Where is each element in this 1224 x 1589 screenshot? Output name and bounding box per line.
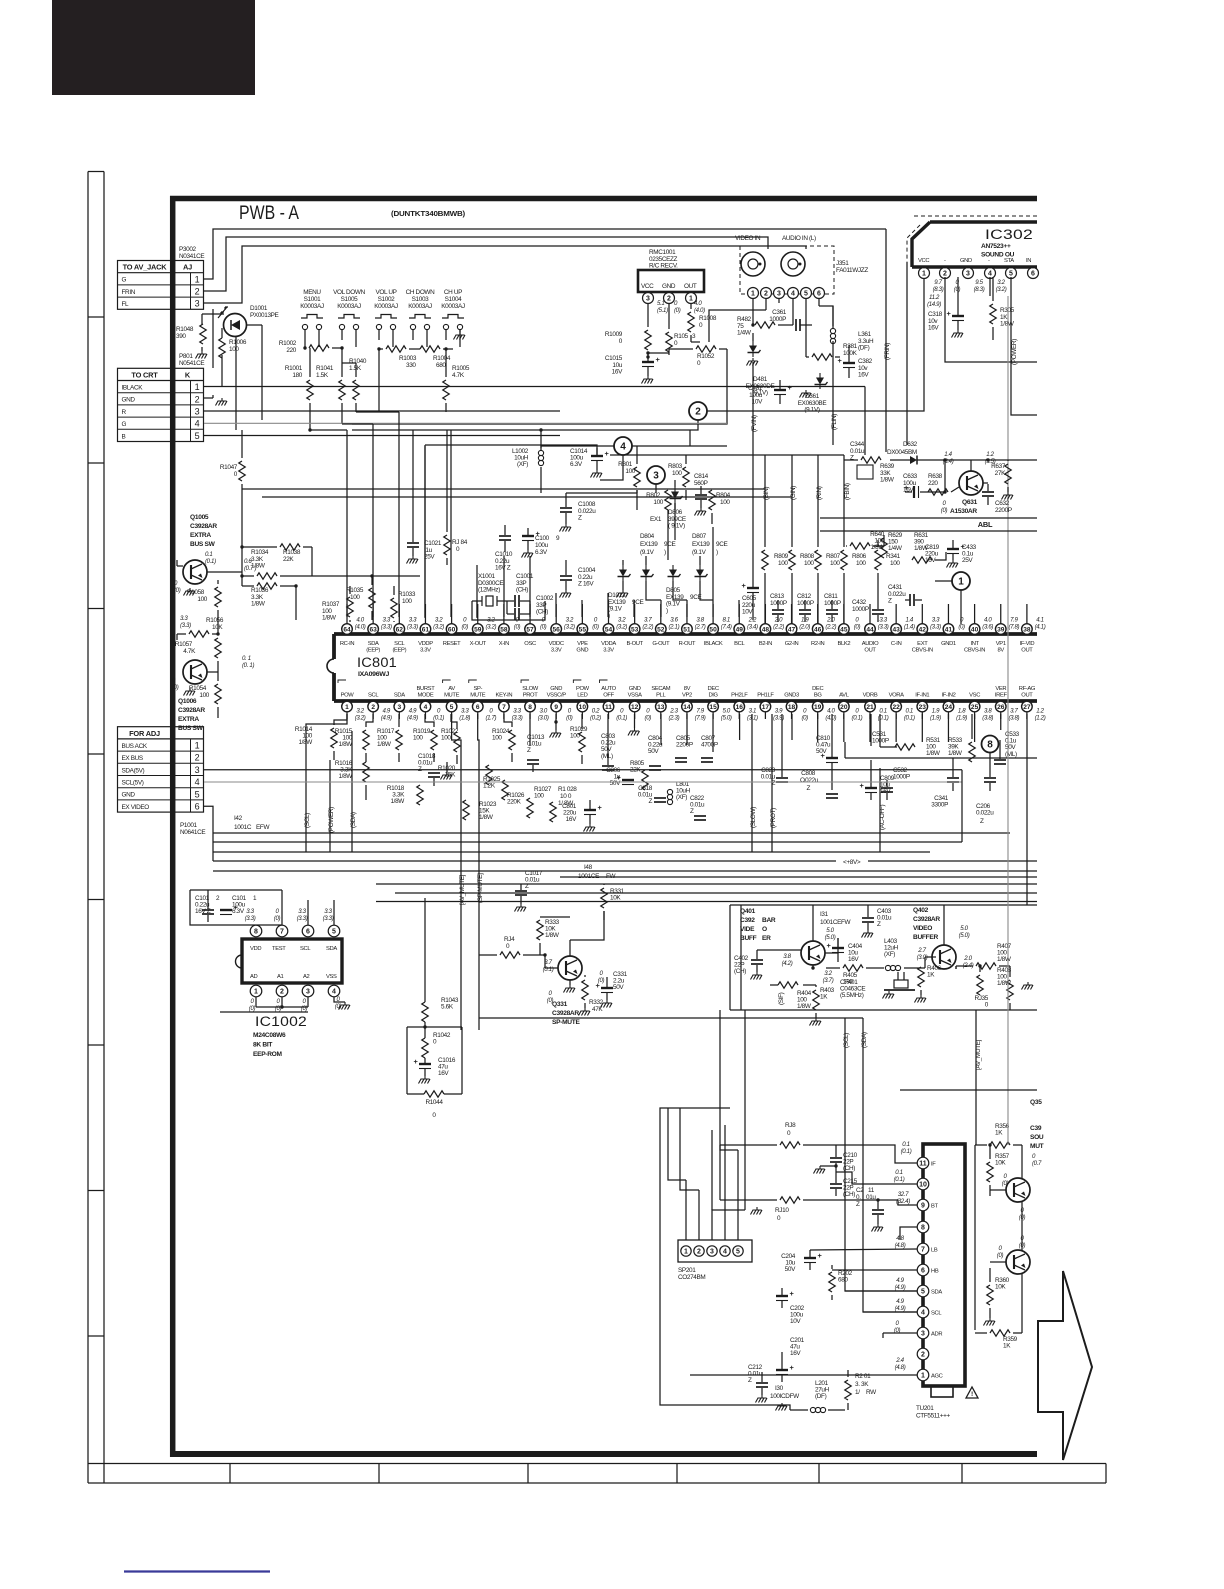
svg-text:): ): [664, 549, 666, 556]
jack VIDEO IN: [741, 252, 765, 276]
resistor R804 100: [709, 487, 731, 524]
svg-text:41: 41: [945, 626, 953, 633]
resistor R360 10K: [987, 1268, 1010, 1318]
svg-text:3: 3: [195, 299, 200, 309]
svg-text:BUS SW: BUS SW: [178, 725, 204, 732]
resistor R1006 100: [219, 328, 247, 358]
svg-text:100: 100: [804, 560, 814, 567]
resistor R1017 100 1/8W: [377, 714, 402, 762]
resistor R356 1K: [975, 1123, 1022, 1148]
svg-text:IC1002: IC1002: [255, 1014, 307, 1029]
label I31 1001CEFW: [820, 911, 852, 941]
svg-text:14: 14: [683, 704, 691, 711]
IC801 pin 13 SECAM PLL: [651, 686, 679, 721]
ground under R403: [815, 1018, 817, 1021]
svg-text:OSC: OSC: [524, 641, 536, 647]
resistor R1028 10 1/8W: [550, 786, 578, 822]
svg-text:S1005: S1005: [341, 296, 359, 303]
svg-text:4: 4: [332, 989, 336, 996]
svg-text:Z: Z: [980, 818, 984, 825]
ground under C403: [867, 930, 869, 933]
svg-text:15K: 15K: [445, 772, 456, 779]
capacitor C1004 0.22u Z 16V: [560, 560, 596, 590]
svg-text:VCC: VCC: [918, 258, 929, 264]
svg-text:330: 330: [406, 362, 416, 369]
svg-text:(5.5MHz): (5.5MHz): [840, 992, 864, 999]
capacitor C202 100u 10V: [776, 1288, 805, 1325]
resistor R1054 100: [172, 672, 221, 718]
svg-text:11: 11: [868, 1187, 875, 1194]
svg-text:1/8W: 1/8W: [797, 1003, 812, 1010]
svg-text:MUT: MUT: [1030, 1143, 1044, 1150]
svg-text:G: G: [122, 421, 127, 428]
capacitor C431 0.022u: [888, 584, 922, 606]
resistor R1003 330: [377, 346, 420, 369]
switch S1001 MENU: [300, 289, 324, 347]
resistor R808 100: [789, 550, 815, 570]
diode D361 EX0630BE zener: [798, 373, 828, 414]
svg-text:1/8W: 1/8W: [251, 563, 266, 570]
svg-text:(0): (0): [674, 307, 681, 314]
TU201 pin 3 ADR: [917, 1327, 942, 1339]
wire AV jack FRIN line: [204, 237, 768, 291]
resistor R1005 4.7K: [443, 349, 470, 400]
svg-text:10K: 10K: [995, 1160, 1006, 1167]
IC1002 pin 6: [297, 900, 314, 937]
svg-text:(3.2): (3.2): [355, 714, 366, 721]
IC801 pin 41 GND1: [941, 604, 965, 647]
resistor R1024 100: [492, 714, 515, 762]
svg-text:N0341CE: N0341CE: [179, 253, 204, 260]
svg-text:38: 38: [1023, 626, 1031, 633]
svg-text:1/8W: 1/8W: [926, 750, 941, 757]
transistor Q402: [917, 925, 974, 969]
svg-text:(4.9): (4.9): [407, 714, 418, 721]
svg-text:AN7523++: AN7523++: [981, 243, 1011, 250]
svg-text:(3.3): (3.3): [512, 714, 523, 721]
svg-text:(12MHz): (12MHz): [478, 587, 500, 594]
wire pin53 riser: [633, 600, 635, 617]
transistor Q1006: [183, 655, 254, 684]
wire RMC output to bus: [352, 349, 727, 424]
svg-text:S1004: S1004: [445, 296, 463, 303]
IC801 pin 21 VDRB: [863, 693, 889, 722]
svg-text:(0.2): (0.2): [590, 714, 601, 721]
svg-text:(3.2): (3.2): [485, 623, 496, 630]
wire mute bus horizontal: [479, 1017, 863, 1019]
svg-text:Q631: Q631: [962, 499, 978, 506]
svg-text:3.3V: 3.3V: [420, 648, 431, 654]
wire SCL SDA to tuner top: [0, 0, 1, 1]
svg-text:STA: STA: [1004, 258, 1014, 264]
capacitor C344 0.01u Z: [850, 441, 873, 479]
svg-text:1: 1: [958, 577, 964, 588]
IC801 pin 20 AVL: [839, 693, 863, 722]
svg-text:R1057: R1057: [175, 641, 193, 648]
svg-text:RJ 84: RJ 84: [452, 539, 468, 546]
wire y1090 right: [900, 1089, 1037, 1091]
svg-text:OFF: OFF: [603, 693, 614, 699]
svg-text:8V: 8V: [684, 686, 691, 692]
resistor R805 22K: [630, 760, 648, 790]
svg-text:3: 3: [710, 1249, 714, 1256]
svg-text:1/8W: 1/8W: [997, 956, 1012, 963]
switch S1005 VOL DOWN: [333, 289, 365, 347]
svg-text:64: 64: [343, 626, 351, 633]
svg-text:Z: Z: [748, 1377, 752, 1384]
svg-text:1K: 1K: [995, 1130, 1003, 1137]
svg-text:AV: AV: [448, 686, 455, 692]
svg-text:D632: D632: [903, 441, 918, 448]
capacitor C1008 0.022u Z: [560, 493, 596, 524]
svg-text:RW: RW: [866, 1389, 877, 1396]
wire key col to pin64: [310, 430, 347, 617]
svg-text:16V: 16V: [928, 325, 939, 332]
capacitor C1013 0.01u Z: [527, 714, 545, 772]
svg-text:(3.0): (3.0): [538, 714, 549, 721]
resistor R1053 0: [666, 304, 696, 352]
IC302 pins 1-6: [919, 268, 1039, 279]
svg-text:1001CEFW: 1001CEFW: [820, 919, 852, 926]
svg-text:(FLIN): (FLIN): [831, 414, 838, 430]
svg-text:8K BIT: 8K BIT: [253, 1042, 272, 1049]
wire POWER rail to tuner: [1007, 585, 1009, 1145]
svg-text:10: 10: [919, 1182, 927, 1189]
ground under D1013: [622, 590, 624, 593]
wire IC302 pin2 down: [945, 277, 1037, 362]
Q1005 values: [205, 551, 256, 572]
wire zener drops: [0, 0, 1, 1]
wire pin38 column down: [1026, 714, 1028, 905]
ground under C331: [579, 1000, 613, 1016]
wire bus y455: [610, 455, 848, 460]
svg-text:(0): (0): [174, 587, 181, 594]
ground under R406: [920, 995, 922, 998]
svg-text:(0): (0): [249, 1005, 256, 1012]
svg-text:3: 3: [195, 407, 200, 417]
svg-text:1: 1: [195, 382, 200, 392]
wire tuner subframe: [660, 1108, 790, 1410]
svg-text:R1001: R1001: [285, 365, 303, 372]
svg-text:55: 55: [579, 626, 587, 633]
resistor R332 47K: [582, 970, 605, 1013]
node 4 junction: [614, 437, 632, 455]
svg-text:390: 390: [176, 333, 186, 340]
svg-text:8: 8: [921, 1225, 925, 1232]
capacitor C532 1000P: [881, 767, 910, 800]
pin 2 RMC1001: [664, 293, 681, 314]
svg-text:SDA: SDA: [368, 641, 379, 647]
ground near CH UP switch: [454, 329, 466, 340]
svg-text:(4.1): (4.1): [1035, 623, 1046, 630]
svg-text:FA011WJZZ: FA011WJZZ: [836, 267, 868, 274]
svg-text:PX0013PE: PX0013PE: [250, 312, 279, 319]
capacitor C1021 .1u 25V: [407, 532, 442, 561]
wire C1008 top rail: [541, 467, 656, 493]
svg-text:(5.1): (5.1): [657, 307, 668, 314]
svg-text:VOL DOWN: VOL DOWN: [333, 289, 365, 296]
svg-text:EX139: EX139: [640, 541, 658, 548]
module RMC1001 R/C RECV: [638, 249, 704, 292]
svg-text:4.7K: 4.7K: [452, 372, 465, 379]
IC801 pin 47 G2-IN: [785, 604, 811, 647]
svg-text:(0): (0): [958, 623, 965, 630]
ground at TO CRT pin2: [204, 395, 227, 406]
svg-text:(0.7: (0.7: [1032, 1160, 1042, 1167]
svg-text:61: 61: [422, 626, 430, 633]
resistor R531 100 1/8W: [880, 737, 941, 757]
label C39 SOU MUT cut: [1030, 1125, 1044, 1167]
left margin column: [88, 172, 104, 1484]
svg-text:BUS SW: BUS SW: [190, 541, 216, 548]
svg-text:Z: Z: [578, 515, 582, 522]
capacitor C215 22P CH: [830, 1172, 858, 1198]
svg-text:EX VIDEO: EX VIDEO: [122, 804, 150, 811]
svg-text:2200P: 2200P: [995, 507, 1012, 514]
svg-text:R2 01: R2 01: [855, 1373, 871, 1380]
wire SDA bus drop: [351, 731, 353, 852]
svg-text:5: 5: [736, 1249, 740, 1256]
svg-text:9: 9: [554, 704, 558, 711]
svg-text:2: 2: [764, 291, 768, 298]
svg-text:GND: GND: [550, 686, 562, 692]
svg-text:(9.1V: (9.1V: [692, 549, 707, 556]
svg-text:11: 11: [605, 704, 612, 711]
inductor L403 12uH XF: [884, 938, 901, 971]
svg-text:(4.0): (4.0): [355, 623, 366, 630]
IC801 pin 15 DEC DIG: [707, 686, 731, 721]
IC801 pin 18 GND3: [784, 693, 808, 722]
svg-text:VSSA: VSSA: [628, 693, 643, 699]
ground under R637: [1007, 492, 1009, 495]
svg-text:R1033: R1033: [398, 591, 416, 598]
svg-text:(RIN): (RIN): [816, 486, 823, 500]
svg-text:<+8V>: <+8V>: [843, 859, 861, 866]
svg-text:27K: 27K: [995, 470, 1006, 477]
svg-text:CH DOWN: CH DOWN: [406, 289, 436, 296]
svg-text:INT: INT: [970, 641, 979, 647]
resistor R201 3.3K RW: [845, 1370, 877, 1410]
svg-text:IXA096WJ: IXA096WJ: [358, 671, 390, 678]
svg-text:R1035: R1035: [346, 587, 364, 594]
capacitor C813 1000P: [770, 593, 787, 622]
svg-text:GND3: GND3: [784, 693, 799, 699]
wire AV jack G line: [204, 229, 886, 279]
svg-text:(3.3): (3.3): [381, 623, 392, 630]
svg-text:(FRIN): (FRIN): [884, 343, 891, 360]
svg-text:(1.2): (1.2): [1035, 714, 1046, 721]
svg-text:24: 24: [945, 704, 953, 711]
resistor R1029 100: [570, 714, 588, 764]
IC1002 pin 7: [274, 908, 288, 937]
diode D632: [890, 456, 935, 465]
svg-text:R803: R803: [668, 463, 683, 470]
svg-text:R-OUT: R-OUT: [679, 641, 696, 647]
svg-text:3. 3K: 3. 3K: [855, 1381, 869, 1388]
svg-text:56: 56: [553, 626, 561, 633]
resistor R1058 100: [174, 580, 221, 607]
svg-text:MODE: MODE: [417, 693, 433, 699]
svg-text:100: 100: [653, 499, 663, 506]
label Q402 C3928AR VIDEO BUFFER: [913, 907, 940, 941]
svg-text:SDA(5V): SDA(5V): [122, 767, 145, 774]
svg-text:53: 53: [631, 626, 639, 633]
svg-text:(0.1): (0.1): [852, 714, 863, 721]
svg-text:IREF: IREF: [995, 693, 1008, 699]
filter CF401 C0463CE 5.5MHz: [840, 972, 915, 999]
svg-text:1/8W: 1/8W: [251, 601, 266, 608]
svg-text:44: 44: [866, 626, 874, 633]
capacitor C404 10u 16V: [826, 938, 862, 963]
svg-text:R1003: R1003: [399, 355, 417, 362]
svg-text:17: 17: [762, 704, 770, 711]
wire pin57 riser: [529, 556, 531, 617]
svg-text:DIG: DIG: [708, 693, 718, 699]
svg-text:7: 7: [921, 1247, 925, 1254]
svg-text:(7.4): (7.4): [721, 623, 732, 630]
svg-text:N0541CE: N0541CE: [179, 360, 204, 367]
svg-text:3: 3: [195, 765, 200, 775]
svg-text:(3.3): (3.3): [878, 623, 889, 630]
node 8 junction: [982, 736, 999, 753]
label Q35x cut: [1030, 1099, 1042, 1106]
svg-text:(5.0): (5.0): [825, 934, 836, 941]
svg-text:TEST: TEST: [272, 946, 286, 952]
wire POWER bus drop: [329, 760, 331, 852]
svg-text:47K: 47K: [592, 1006, 603, 1013]
capacitor C814 560P: [694, 473, 709, 508]
svg-text:1K: 1K: [927, 972, 935, 979]
svg-text:100: 100: [890, 560, 900, 567]
svg-text:VSC: VSC: [969, 693, 980, 699]
svg-text:(4.0): (4.0): [694, 307, 705, 314]
wire SCL SDA drop to tuner: [845, 1018, 863, 1250]
wire C1011 harness: [190, 890, 282, 925]
resistor R1041 1.5K: [316, 346, 345, 400]
wire tuner pin8 lead: [900, 1227, 917, 1240]
svg-text:100: 100: [672, 470, 682, 477]
ground under C1004: [565, 590, 567, 593]
svg-text:(3.4): (3.4): [747, 623, 758, 630]
svg-text:1/: 1/: [855, 1389, 860, 1396]
svg-text:ABL: ABL: [978, 520, 993, 529]
svg-text:TO AV_JACK: TO AV_JACK: [123, 263, 168, 272]
svg-text:(3.3): (3.3): [180, 622, 191, 629]
IC801 pin 14 8V VP2: [682, 686, 706, 721]
capacitor C633 100u 16V: [903, 473, 918, 494]
svg-text:4: 4: [988, 271, 992, 278]
TU201 pin 7 LB: [917, 1243, 938, 1255]
svg-text:VDDA: VDDA: [601, 641, 616, 647]
IC801 pin 54 VDDA 3.3V: [601, 604, 627, 654]
svg-text:(XF): (XF): [517, 461, 528, 468]
svg-text:VSSC/P: VSSC/P: [547, 693, 567, 699]
svg-text:(SCL): (SCL): [304, 813, 311, 828]
svg-text:CTF5511+++: CTF5511+++: [916, 1413, 950, 1420]
inductor L801 10uH XF: [667, 781, 690, 805]
IC801 pin 51 R-OUT: [679, 604, 706, 647]
IC801 pin 27 RF-AG OUT: [1019, 686, 1046, 721]
svg-text:(ML): (ML): [1005, 751, 1017, 758]
label TU201 CTF5511+++: [916, 1405, 950, 1420]
svg-text:X-OUT: X-OUT: [470, 641, 487, 647]
svg-text:M24C08W6: M24C08W6: [253, 1032, 286, 1039]
svg-text:48: 48: [762, 626, 770, 633]
resistor R1020 15K: [438, 762, 492, 785]
resistor RJ35 0: [974, 966, 1013, 1010]
wire key matrix drops: [308, 349, 446, 432]
resistor R1019 100: [413, 714, 437, 762]
IC801 pin 26 VER IREF: [995, 686, 1020, 721]
wire L1002 top: [539, 428, 597, 455]
wire R1006 col down: [221, 355, 223, 387]
svg-text:DEC: DEC: [812, 686, 823, 692]
svg-text:(2.3): (2.3): [669, 714, 680, 721]
IC801 pin 6 SP- MUTE: [469, 680, 497, 721]
svg-text:R804: R804: [716, 492, 731, 499]
svg-text:OUT: OUT: [684, 283, 697, 290]
svg-text:PLL: PLL: [656, 693, 666, 699]
svg-text:VP2: VP2: [682, 693, 692, 699]
bus +8V line: [213, 859, 1037, 866]
capacitor C361 1000P: [769, 309, 812, 331]
capacitor C818 0.01u Z: [638, 785, 666, 805]
ground under R360: [989, 1318, 991, 1321]
svg-text:Z 16V: Z 16V: [578, 581, 594, 588]
svg-text:3: 3: [921, 1331, 925, 1338]
resistor R1025 1.2K: [483, 776, 508, 800]
ground Q331 emitter: [564, 980, 576, 993]
jack AUDIO IN: [781, 252, 805, 276]
svg-text:0.022u: 0.022u: [976, 810, 994, 817]
svg-text:50V: 50V: [613, 984, 624, 991]
bus line y830: [213, 832, 1010, 834]
svg-text:5: 5: [450, 704, 454, 711]
svg-text:C39: C39: [1030, 1125, 1042, 1132]
wire tuner pin6 lead: [832, 1269, 917, 1271]
svg-text:(CH): (CH): [516, 587, 528, 594]
wire ADJ risers right: [961, 770, 963, 842]
svg-text:(0): (0): [566, 714, 573, 721]
svg-text:AGC: AGC: [931, 1374, 943, 1380]
wire crystal frame: [472, 601, 545, 620]
svg-text:KEY-IN: KEY-IN: [496, 693, 513, 699]
svg-text:25V: 25V: [962, 557, 973, 564]
svg-text:22: 22: [892, 704, 900, 711]
svg-text:Z: Z: [877, 921, 881, 928]
svg-text:2: 2: [943, 271, 947, 278]
label I30 100ICDFW: [770, 1385, 800, 1400]
wire pin55 riser: [581, 600, 583, 617]
svg-text:(SIF): (SIF): [778, 992, 785, 1005]
IC801 pin 60 RESET: [443, 604, 468, 647]
ground under C819: [952, 560, 954, 563]
svg-text:1: 1: [922, 271, 926, 278]
wire key col to pin62: [356, 412, 399, 617]
svg-text:1/8W: 1/8W: [948, 750, 963, 757]
svg-text:(XF): (XF): [884, 951, 895, 958]
svg-text:42: 42: [919, 626, 927, 633]
svg-text:Z: Z: [648, 798, 652, 805]
IC801 pin 56 VDDC 3.3V: [549, 604, 575, 654]
svg-text:J351: J351: [836, 260, 849, 267]
IC801 pin 61 VDDP 3.3V: [418, 604, 444, 654]
wire pin49 riser: [738, 600, 740, 617]
svg-text:R1002: R1002: [279, 340, 297, 347]
svg-text:S1001: S1001: [304, 296, 322, 303]
svg-text:R2-IN: R2-IN: [811, 641, 825, 647]
transistor Q353: [997, 1235, 1030, 1274]
